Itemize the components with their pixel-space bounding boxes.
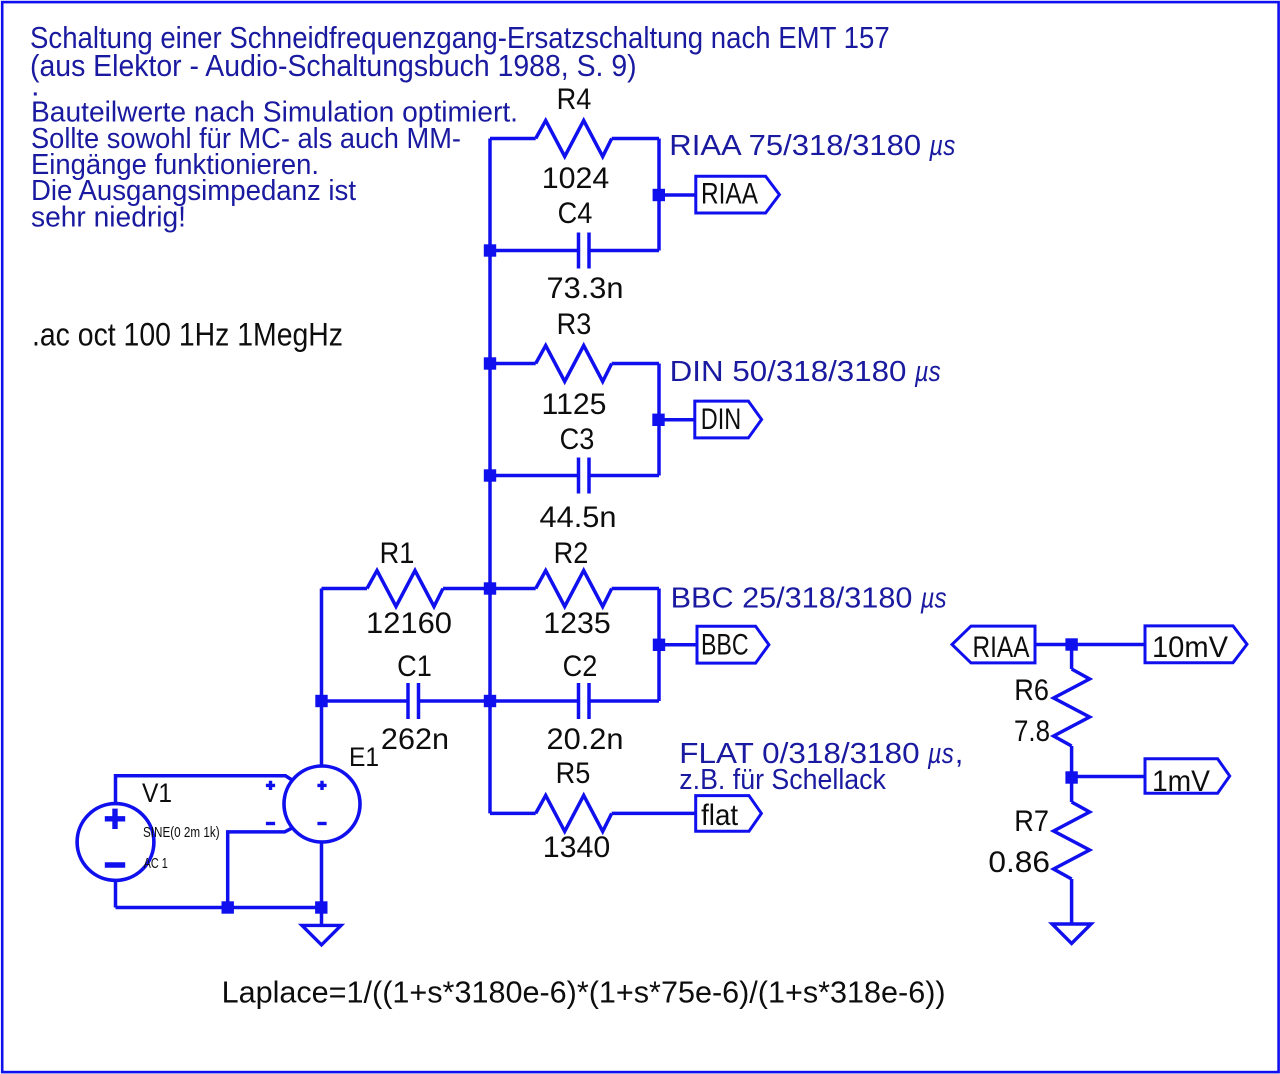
- wire C3 row right: [589, 474, 659, 478]
- junction: [484, 244, 496, 256]
- resistor R4: [536, 121, 612, 157]
- svg-text:262n: 262n: [381, 723, 449, 756]
- wire E1 control plus: [116, 776, 293, 805]
- wire right column R2-C2: [657, 589, 661, 702]
- wire E1 control minus: [228, 828, 292, 907]
- port DIN: [695, 401, 762, 438]
- svg-text:AC 1: AC 1: [144, 855, 168, 872]
- svg-text:R7: R7: [1014, 805, 1049, 838]
- svg-text:RIAA: RIAA: [701, 178, 758, 211]
- wire R3 row left: [490, 362, 536, 366]
- wire R5 row left: [490, 812, 536, 816]
- svg-text:µs: µs: [920, 583, 947, 615]
- wire RIAA in to 10mV: [1035, 643, 1145, 647]
- resistor R7: [1054, 802, 1090, 879]
- svg-text:V1: V1: [142, 778, 172, 808]
- svg-text:z.B. für Schellack: z.B. für Schellack: [679, 764, 886, 796]
- svg-text:1024: 1024: [542, 162, 610, 195]
- junction: [484, 582, 496, 594]
- junction: [652, 414, 664, 426]
- svg-text:µs: µs: [928, 130, 955, 162]
- port RIAA: [696, 176, 780, 213]
- port BBC: [697, 626, 769, 663]
- resistor R6: [1054, 669, 1090, 746]
- wire R2 row left: [490, 587, 536, 591]
- svg-text:flat: flat: [701, 799, 739, 832]
- svg-text:RIAA 75/318/3180: RIAA 75/318/3180: [669, 130, 921, 162]
- wire C2 row left: [490, 699, 579, 703]
- port flat: [696, 796, 762, 832]
- svg-text:20.2n: 20.2n: [547, 723, 624, 756]
- svg-text:SINE(0 2m 1k): SINE(0 2m 1k): [143, 824, 220, 841]
- svg-text:12160: 12160: [366, 607, 452, 640]
- wire C4 row left: [490, 249, 579, 253]
- svg-text:,: ,: [955, 738, 964, 770]
- svg-text:E1: E1: [349, 742, 379, 772]
- capacitor C4: [579, 233, 590, 269]
- wire to port RIAA: [659, 193, 696, 197]
- wire V1 bottom: [114, 880, 118, 907]
- wire R5 row to port flat: [612, 812, 696, 816]
- junction: [653, 639, 665, 651]
- wire C2 row right: [589, 699, 659, 703]
- junction: [1065, 771, 1077, 783]
- svg-text:C1: C1: [397, 650, 432, 683]
- wire R1 row right: [443, 587, 490, 591]
- port RIAA input: [952, 626, 1035, 663]
- wire R1 row left: [322, 587, 368, 591]
- svg-text:µs: µs: [914, 356, 941, 388]
- svg-text:BBC: BBC: [701, 628, 749, 661]
- wire R3 row right: [612, 362, 659, 366]
- wire R2 row right: [612, 587, 659, 591]
- wire to port BBC: [659, 643, 697, 647]
- junction: [653, 189, 665, 201]
- svg-text:C2: C2: [563, 650, 598, 683]
- svg-text:44.5n: 44.5n: [540, 501, 617, 534]
- svg-text:Laplace=1/((1+s*3180e-6)*(1+s*: Laplace=1/((1+s*3180e-6)*(1+s*75e-6)/(1+…: [222, 975, 946, 1010]
- svg-text:73.3n: 73.3n: [547, 272, 624, 305]
- capacitor C2: [579, 683, 590, 719]
- junction: [315, 695, 327, 707]
- svg-text:7.8: 7.8: [1014, 715, 1050, 748]
- wire main trunk: [488, 139, 492, 814]
- svg-text:.ac oct 100 1Hz 1MegHz: .ac oct 100 1Hz 1MegHz: [32, 317, 343, 353]
- wire to port 1mV: [1072, 775, 1145, 779]
- port 1mV: [1145, 759, 1230, 793]
- wire C4 row right: [589, 249, 659, 253]
- wire R4 row right: [612, 137, 659, 141]
- svg-text:C4: C4: [558, 197, 593, 230]
- wire E1 top pin: [320, 701, 324, 767]
- resistor R5: [536, 795, 612, 831]
- resistor R1: [367, 571, 443, 607]
- svg-text:BBC 25/318/3180: BBC 25/318/3180: [671, 583, 913, 615]
- capacitor C1: [408, 683, 419, 719]
- vcvs E1: [266, 766, 360, 842]
- wire R6 top lead: [1070, 645, 1074, 670]
- svg-text:sehr niedrig!: sehr niedrig!: [31, 201, 186, 233]
- port 10mV: [1145, 626, 1247, 663]
- junction: [315, 901, 327, 913]
- svg-text:0.86: 0.86: [988, 846, 1050, 879]
- svg-text:(aus Elektor - Audio-Schaltung: (aus Elektor - Audio-Schaltungsbuch 1988…: [30, 48, 637, 83]
- svg-text:1340: 1340: [543, 831, 611, 864]
- wire C1 row right: [419, 699, 491, 703]
- svg-text:R5: R5: [556, 757, 591, 790]
- junction: [484, 357, 496, 369]
- wire right column R4-C4: [657, 139, 661, 251]
- junction: [484, 695, 496, 707]
- wire right column R3-C3: [657, 364, 661, 476]
- wire C3 row left: [490, 474, 579, 478]
- junction: [222, 901, 234, 913]
- wire E1 bottom to ground: [320, 842, 324, 925]
- svg-text:R3: R3: [557, 308, 592, 341]
- wire to port DIN: [659, 418, 695, 422]
- wire R4 row left: [490, 137, 536, 141]
- ground: [1052, 924, 1091, 944]
- svg-text:µs: µs: [927, 738, 954, 770]
- wire C1 row left: [322, 699, 409, 703]
- ground: [302, 925, 341, 945]
- voltage source V1: [77, 804, 154, 881]
- wire left column R1-C1: [320, 589, 324, 702]
- svg-text:1mV: 1mV: [1152, 765, 1210, 798]
- wire bottom rail: [116, 906, 322, 910]
- junction: [484, 469, 496, 481]
- svg-text:R1: R1: [380, 537, 415, 570]
- svg-text:R6: R6: [1014, 674, 1049, 707]
- svg-text:1125: 1125: [542, 388, 607, 421]
- svg-text:R2: R2: [554, 537, 589, 570]
- svg-text:DIN: DIN: [701, 403, 741, 436]
- svg-text:DIN 50/318/3180: DIN 50/318/3180: [670, 356, 907, 388]
- svg-text:RIAA: RIAA: [973, 631, 1030, 664]
- svg-text:R4: R4: [557, 83, 592, 116]
- wire R7 top lead: [1070, 778, 1074, 803]
- resistor R3: [536, 346, 612, 382]
- wire R6 bottom lead: [1070, 746, 1074, 778]
- resistor R2: [536, 571, 612, 607]
- svg-text:1235: 1235: [543, 607, 611, 640]
- svg-text:10mV: 10mV: [1152, 631, 1228, 664]
- wire R7 bottom lead: [1070, 879, 1074, 924]
- capacitor C3: [579, 458, 590, 494]
- junction: [1065, 638, 1077, 650]
- svg-text:C3: C3: [560, 423, 595, 456]
